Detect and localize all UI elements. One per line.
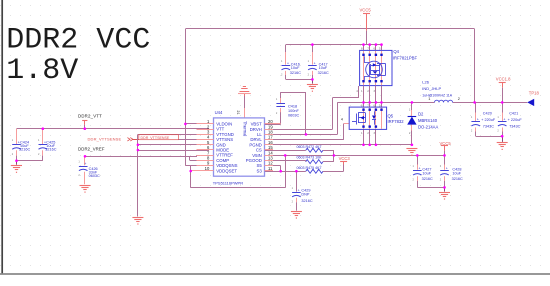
svg-text:7343C: 7343C [483,124,494,128]
svg-text:DDR_VTTSENSE: DDR_VTTSENSE [141,136,170,140]
svg-text:7343C: 7343C [509,124,520,128]
svg-text:DDR2_VTT: DDR2_VTT [78,113,102,118]
svg-text:+: + [298,188,300,192]
svg-text:DDR_VTTSENSE: DDR_VTTSENSE [88,136,122,141]
svg-text:0603 R475 4K7: 0603 R475 4K7 [297,166,322,170]
svg-text:1uH@100KHZ 11A: 1uH@100KHZ 11A [422,93,452,97]
svg-text:DDR2 VCC: DDR2 VCC [6,24,150,58]
svg-text:DDR2_VREF: DDR2_VREF [78,146,105,151]
svg-text:IND_JHLP: IND_JHLP [422,86,441,91]
svg-text:10uF: 10uF [452,172,461,176]
svg-text:D2: D2 [418,111,424,116]
svg-text:4: 4 [341,117,343,121]
svg-text:11: 11 [268,166,273,171]
svg-text:0603 R472 4K7: 0603 R472 4K7 [297,145,322,149]
svg-text:Q4: Q4 [393,49,399,54]
svg-text:1: 1 [428,97,430,101]
svg-text:Thermal: Thermal [243,121,248,136]
svg-text:10uF: 10uF [422,172,431,176]
svg-text:VCC5: VCC5 [440,141,452,146]
svg-text:3216C: 3216C [19,148,30,152]
svg-text:MBRS140: MBRS140 [418,118,438,123]
svg-text:2: 2 [458,97,460,101]
svg-text:3216C: 3216C [301,199,312,203]
svg-text:TP18: TP18 [529,90,540,95]
svg-text:3216C: 3216C [452,177,463,181]
svg-text:+ 220uF: + 220uF [508,118,523,122]
svg-text:L26: L26 [422,79,429,84]
svg-text:0603C: 0603C [89,174,100,178]
svg-text:VCC5: VCC5 [360,7,372,12]
svg-text:+: + [287,61,289,65]
svg-text:3216C: 3216C [290,71,301,75]
svg-text:U44: U44 [215,110,223,115]
svg-text:10: 10 [205,166,210,171]
svg-text:S3: S3 [257,168,263,173]
svg-text:C421: C421 [509,111,518,115]
svg-text:Q5: Q5 [388,114,394,119]
svg-text:IRF7821PBF: IRF7821PBF [393,56,418,61]
svg-text:IRF7832: IRF7832 [388,119,405,124]
svg-text:3216C: 3216C [422,177,433,181]
svg-text:10uF: 10uF [319,66,328,70]
svg-text:C418: C418 [288,104,297,108]
svg-text:DO-214AA: DO-214AA [418,124,438,129]
svg-text:100nF: 100nF [288,109,299,113]
svg-text:+: + [84,162,86,166]
svg-text:10uF: 10uF [291,66,300,70]
svg-text:+: + [446,167,448,171]
svg-text:C420: C420 [483,111,492,115]
svg-text:3216C: 3216C [45,148,56,152]
svg-text:0603C: 0603C [288,114,299,118]
svg-text:+: + [314,61,316,65]
svg-text:3216C: 3216C [318,71,329,75]
svg-text:VCC3: VCC3 [339,156,351,161]
svg-text:VCC1.8: VCC1.8 [496,77,511,82]
svg-text:+: + [477,117,479,121]
svg-text:+: + [419,167,421,171]
svg-text:+: + [503,117,505,121]
svg-text:0603 R473 10K: 0603 R473 10K [297,155,323,159]
svg-text:DNP: DNP [301,193,309,197]
svg-text:1.8V: 1.8V [6,54,78,88]
svg-text:VDDQSET: VDDQSET [216,168,237,173]
svg-text:TPS51116PWPR: TPS51116PWPR [213,181,243,186]
svg-text:+ 220uF: + 220uF [481,118,496,122]
svg-text:21: 21 [236,110,240,114]
